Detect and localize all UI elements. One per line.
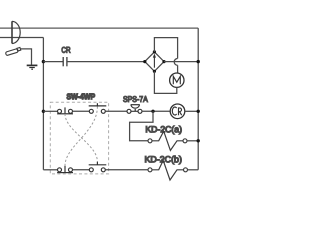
node bridge top — [153, 50, 156, 53]
node bridge right — [162, 60, 165, 63]
wire jog to KD-2C(a) — [130, 111, 153, 141]
wire top row segment 2 — [73, 110, 90, 112]
node relay tee — [151, 110, 154, 113]
wire speaker bottom lead — [0, 37, 43, 39]
wire hop to motor — [177, 65, 179, 73]
wire bridge top loop — [154, 38, 177, 59]
svg-text:SW-4WP: SW-4WP — [66, 92, 95, 101]
wire KD-2C(a) to bus — [187, 140, 198, 142]
contact NC top left — [57, 107, 73, 113]
wire bus to capacitor — [43, 61, 63, 63]
wire bottom row segment 2 — [73, 169, 90, 171]
wire top row segment 3 — [105, 110, 127, 112]
bridge rectifier diamond — [145, 52, 164, 71]
linkage dashed cross 2 — [65, 107, 97, 166]
node bridge left — [143, 60, 146, 63]
wire crossover hop — [174, 59, 177, 66]
capacitor CR — [63, 57, 67, 66]
pressure switch SPS-7A — [127, 105, 142, 114]
wire bottom row segment 3 — [105, 169, 148, 171]
wire top supply — [0, 27, 198, 29]
wire microphone lead — [21, 49, 32, 65]
speaker BZ — [12, 21, 20, 43]
motor M — [170, 73, 184, 87]
contact NO bottom right — [89, 162, 107, 172]
svg-text:CR: CR — [61, 46, 70, 55]
wire left bus — [42, 38, 44, 170]
contact NC bottom left — [57, 166, 73, 173]
bridge arrow — [153, 54, 156, 68]
wire bridge right to bus — [164, 61, 198, 63]
relay coil CR — [170, 104, 185, 119]
wire capacitor to bridge — [67, 61, 145, 63]
microphone MC — [5, 47, 20, 55]
contact NO top right — [89, 103, 107, 113]
node capacitor tee — [42, 60, 45, 63]
wire top row segment 1 — [43, 110, 57, 112]
wire bottom row segment 1 — [43, 169, 57, 171]
buzzer KD-2C(a) — [148, 131, 187, 150]
wire relay CR to bus — [185, 110, 198, 112]
linkage dashed cross 1 — [65, 114, 97, 162]
node top row bus tee — [42, 110, 45, 113]
wire right bus — [197, 28, 199, 170]
node right bus motor tee — [197, 60, 200, 63]
wire top row segment 4 — [142, 110, 170, 112]
node bridge bottom — [153, 70, 156, 73]
wire KD-2C(b) to bus — [188, 169, 199, 171]
wire motor bottom loop — [154, 71, 176, 93]
ground — [27, 65, 38, 69]
node right bus KD(a) tee — [197, 139, 200, 142]
buzzer KD-2C(b) — [148, 160, 188, 180]
node right bus CR tee — [197, 110, 200, 113]
svg-text:SPS-7A: SPS-7A — [123, 95, 148, 104]
relay box SW-4WP dashed — [50, 102, 108, 174]
